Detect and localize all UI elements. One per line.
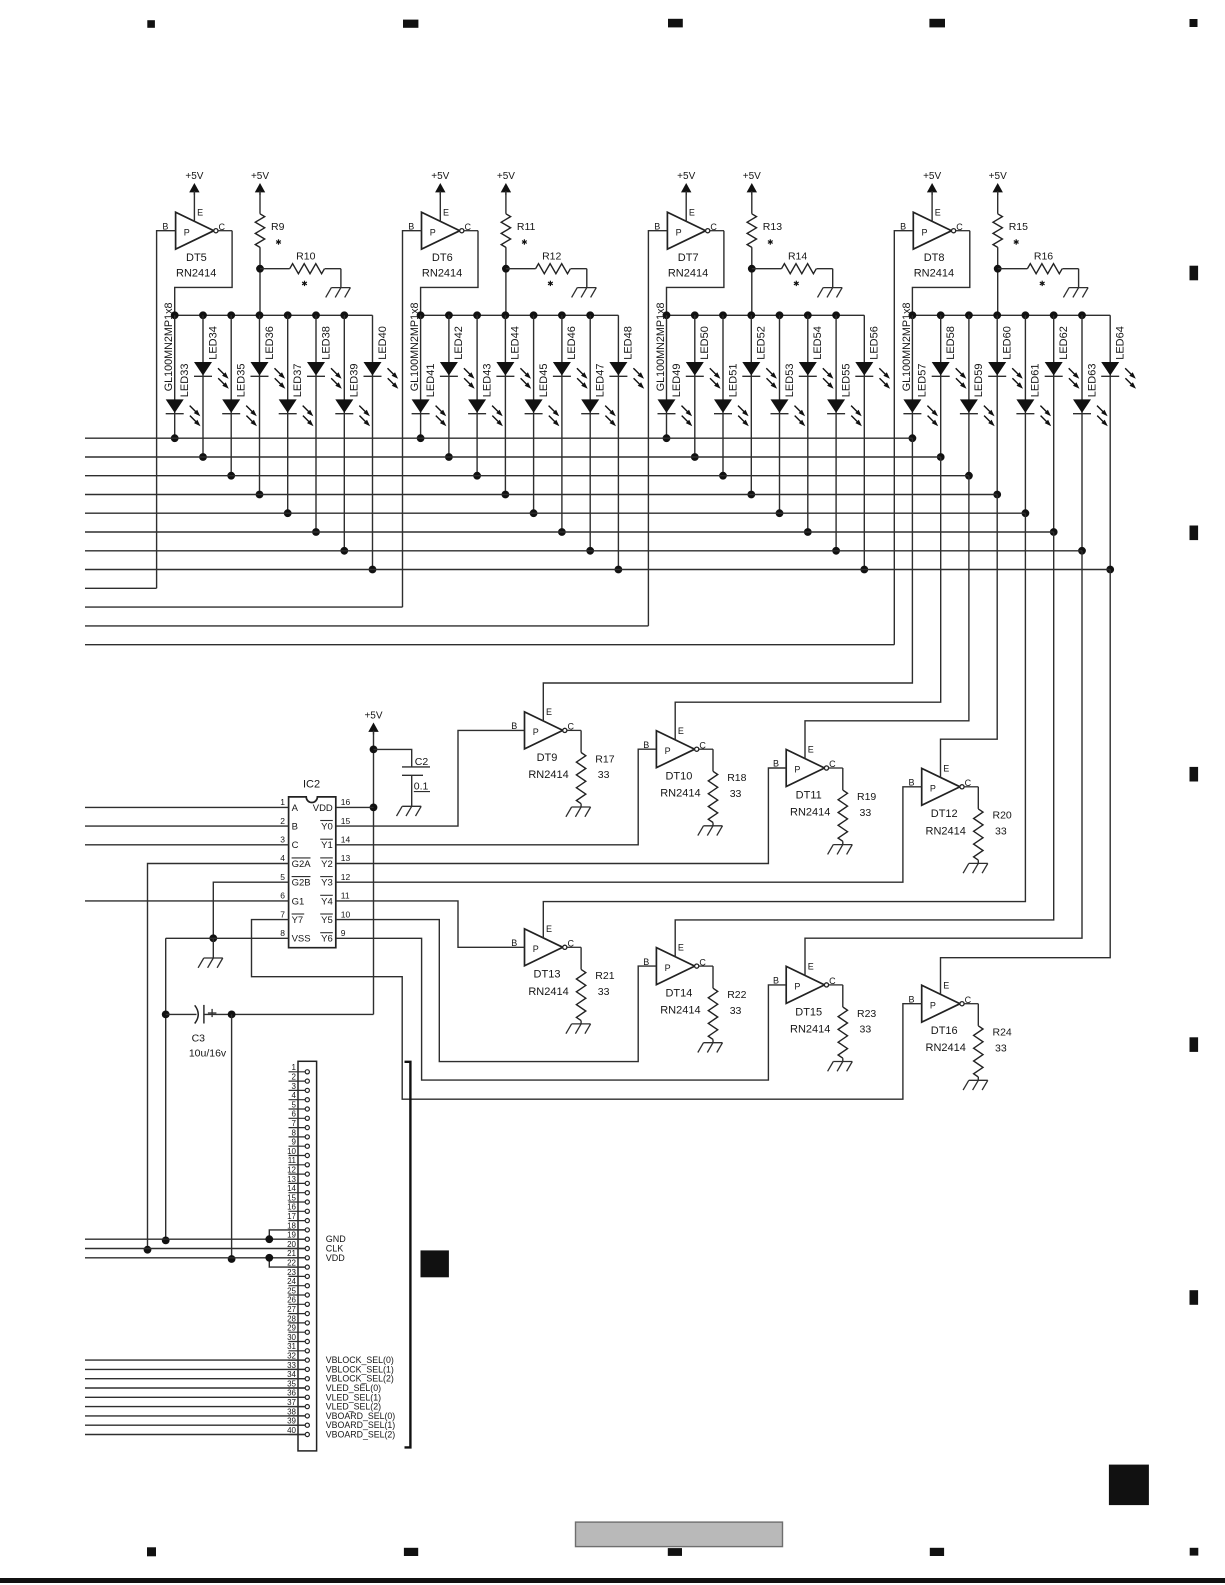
svg-text:LED39: LED39 xyxy=(349,364,361,398)
wire DT9 emitter from LED bus 1 xyxy=(543,438,912,721)
svg-text:LED54: LED54 xyxy=(812,326,824,360)
svg-text:39: 39 xyxy=(287,1417,296,1426)
+5V supply at DT7 emitter xyxy=(677,171,695,221)
wire DT6 base xyxy=(403,231,422,607)
wire LED row bus 4 xyxy=(85,494,997,496)
svg-text:DT15: DT15 xyxy=(795,1006,822,1018)
ground below R19 xyxy=(828,845,853,855)
svg-text:RN2414: RN2414 xyxy=(790,1023,830,1035)
svg-text:24: 24 xyxy=(287,1277,296,1286)
svg-text:GL100MN2MP1x8: GL100MN2MP1x8 xyxy=(409,302,421,391)
svg-text:RN2414: RN2414 xyxy=(914,268,954,280)
svg-text:DT7: DT7 xyxy=(678,252,699,264)
LED63 xyxy=(1073,364,1108,427)
LED33 xyxy=(166,364,201,427)
wire LED column 56 xyxy=(860,315,868,573)
wire LED row bus 8 xyxy=(85,569,1110,571)
svg-text:19: 19 xyxy=(287,1231,296,1240)
svg-text:LED56: LED56 xyxy=(869,326,881,360)
svg-text:26: 26 xyxy=(287,1296,296,1305)
capacitor C3 10u/16v xyxy=(166,1005,374,1059)
svg-text:VBOARD_SEL(2): VBOARD_SEL(2) xyxy=(326,1430,395,1440)
svg-text:VDD: VDD xyxy=(313,803,333,814)
svg-text:LED55: LED55 xyxy=(840,364,852,398)
wire DT15 emitter from LED bus 7 xyxy=(805,551,1082,976)
LED58 xyxy=(932,326,967,389)
svg-text:GL100MN2MP1x8: GL100MN2MP1x8 xyxy=(163,302,175,391)
ground at VSS xyxy=(198,938,223,968)
LED62 xyxy=(1045,326,1080,389)
svg-text:10: 10 xyxy=(341,909,351,919)
wire LED column 61 xyxy=(1022,315,1030,517)
wire VBLOCK_SEL(1) (pin 33) xyxy=(85,1368,305,1370)
wire LED column 53 xyxy=(776,315,784,517)
resistor R11 xyxy=(497,171,536,315)
transistor DT15 (RN2414) xyxy=(773,962,843,1036)
svg-text:32: 32 xyxy=(287,1352,296,1361)
svg-text:14: 14 xyxy=(287,1184,296,1193)
svg-text:LED64: LED64 xyxy=(1115,326,1127,360)
wire LED row bus 5 xyxy=(85,512,1025,514)
LED64 xyxy=(1101,326,1136,389)
svg-text:11: 11 xyxy=(341,891,350,901)
svg-text:18: 18 xyxy=(287,1221,296,1230)
wire G2B (pin 5) to VSS net xyxy=(209,882,288,942)
wire LED anode bus group 4 xyxy=(909,311,1111,319)
svg-text:G1: G1 xyxy=(292,896,305,907)
wire DT7 base xyxy=(648,231,667,626)
wire LED column 44 xyxy=(502,315,510,498)
LED39 xyxy=(335,364,370,427)
wire DT5 base xyxy=(157,231,176,589)
ground below C2 xyxy=(397,806,422,816)
LED51 xyxy=(714,364,749,427)
LED34 xyxy=(194,326,229,389)
wire Y3 to DT12 xyxy=(336,787,922,882)
svg-text:R14: R14 xyxy=(788,250,807,262)
svg-text:GL100MN2MP1x8: GL100MN2MP1x8 xyxy=(901,302,913,391)
svg-text:Y7: Y7 xyxy=(292,915,304,926)
LED40 xyxy=(364,326,399,389)
wire LED column 45 xyxy=(530,315,538,517)
svg-text:7: 7 xyxy=(280,909,285,919)
svg-text:17: 17 xyxy=(287,1212,296,1221)
svg-text:B: B xyxy=(292,822,298,833)
svg-text:0.1: 0.1 xyxy=(414,781,429,793)
LED44 xyxy=(496,326,531,389)
ground below R17 xyxy=(566,807,591,817)
transistor DT8 (RN2414) xyxy=(900,207,970,279)
wire LED row bus 1 xyxy=(85,437,912,439)
svg-text:R9: R9 xyxy=(271,221,285,233)
svg-text:33: 33 xyxy=(598,986,610,998)
wire DT16 emitter from LED bus 8 xyxy=(941,570,1111,995)
wire DT8 base feed xyxy=(85,644,894,646)
svg-text:2: 2 xyxy=(280,816,285,826)
wire LED row bus 6 xyxy=(85,531,1054,533)
svg-text:28: 28 xyxy=(287,1314,296,1323)
transistor DT10 (RN2414) xyxy=(643,726,713,800)
+5V supply at DT8 emitter xyxy=(923,171,941,221)
wire LED column 51 xyxy=(719,315,727,479)
svg-text:40: 40 xyxy=(287,1426,296,1435)
resistor R9 xyxy=(251,171,285,315)
svg-text:13: 13 xyxy=(287,1175,296,1184)
pcb mark square xyxy=(421,1250,449,1277)
wire Y0 to DT9 xyxy=(336,730,525,826)
wire DT8 base xyxy=(894,231,913,645)
resistor R15 xyxy=(989,171,1028,315)
svg-text:Y6: Y6 xyxy=(321,934,333,945)
wire LED row bus 7 xyxy=(85,550,1082,552)
wire DT5 base feed xyxy=(85,587,157,589)
LED54 xyxy=(799,326,834,389)
svg-text:33: 33 xyxy=(860,1024,872,1036)
svg-text:R19: R19 xyxy=(857,791,876,803)
transistor DT14 (RN2414) xyxy=(643,943,713,1017)
svg-text:RN2414: RN2414 xyxy=(660,1005,700,1017)
svg-text:R15: R15 xyxy=(1009,221,1028,233)
wire LED column 39 xyxy=(340,315,348,554)
resistor R20 33 xyxy=(974,787,1012,864)
wire LED column 48 xyxy=(615,315,623,573)
svg-text:12: 12 xyxy=(341,872,351,882)
svg-text:DT14: DT14 xyxy=(665,988,692,1000)
wire DT13 emitter from LED bus 5 xyxy=(543,513,1025,938)
LED55 xyxy=(827,364,862,427)
wire DT12 emitter from LED bus 4 xyxy=(941,495,998,778)
LED37 xyxy=(279,364,314,427)
svg-text:LED45: LED45 xyxy=(538,364,550,398)
svg-text:27: 27 xyxy=(287,1305,296,1314)
IC IC2 (3-to-8 decoder) xyxy=(280,779,350,948)
svg-text:LED46: LED46 xyxy=(566,326,578,360)
svg-text:16: 16 xyxy=(341,797,351,807)
svg-text:8: 8 xyxy=(292,1128,297,1137)
ground below R18 xyxy=(698,826,723,836)
svg-text:LED40: LED40 xyxy=(377,326,389,360)
wire LED anode bus group 2 xyxy=(417,311,619,319)
resistor R21 33 xyxy=(576,947,614,1024)
svg-text:33: 33 xyxy=(730,1005,742,1017)
ground below R21 xyxy=(566,1024,591,1034)
svg-text:RN2414: RN2414 xyxy=(926,825,966,837)
LED43 xyxy=(468,364,503,427)
LED56 xyxy=(855,326,890,389)
wire LED column 33 xyxy=(171,315,179,442)
svg-text:13: 13 xyxy=(341,853,351,863)
wire LED column 57 xyxy=(909,315,917,442)
wire VLED_SEL(1) (pin 36) xyxy=(85,1396,305,1398)
wire LED column 41 xyxy=(417,315,425,442)
LED42 xyxy=(440,326,475,389)
svg-text:33: 33 xyxy=(995,826,1007,838)
wire LED column 64 xyxy=(1106,315,1114,573)
transistor DT16 (RN2414) xyxy=(908,980,978,1054)
LED59 xyxy=(960,364,995,427)
LED47 xyxy=(581,364,616,427)
svg-text:LED60: LED60 xyxy=(1002,326,1014,360)
wire Y6 to DT15 xyxy=(336,938,786,1080)
svg-text:LED33: LED33 xyxy=(179,364,191,398)
LED53 xyxy=(771,364,806,427)
wire Y4 to DT13 xyxy=(336,901,525,947)
svg-text:DT16: DT16 xyxy=(931,1025,958,1037)
wire C3 to connector VDD xyxy=(228,1014,236,1263)
svg-text:DT10: DT10 xyxy=(665,771,692,783)
svg-text:22: 22 xyxy=(287,1259,296,1268)
+5V supply at DT6 emitter xyxy=(431,171,449,221)
svg-text:11: 11 xyxy=(288,1156,297,1165)
svg-text:6: 6 xyxy=(280,891,285,901)
wire LED row bus 2 xyxy=(85,456,941,458)
svg-text:6: 6 xyxy=(292,1110,297,1119)
svg-text:21: 21 xyxy=(287,1249,296,1258)
ground below R14 xyxy=(818,288,843,298)
wire LED column 52 xyxy=(747,315,755,498)
svg-text:10u/16v: 10u/16v xyxy=(189,1047,227,1059)
svg-text:R22: R22 xyxy=(727,989,746,1001)
LED61 xyxy=(1016,364,1051,427)
resistor R22 33 xyxy=(708,966,746,1043)
wire input C (pin 3) xyxy=(85,844,289,846)
wire DT7 collector to LED anode bus xyxy=(667,231,724,316)
svg-text:LED63: LED63 xyxy=(1086,364,1098,398)
wire LED column 38 xyxy=(312,315,320,536)
svg-text:3: 3 xyxy=(292,1082,297,1091)
wire DT8 collector to LED anode bus xyxy=(912,231,969,316)
ground below R10 xyxy=(326,288,351,298)
wire VBOARD_SEL(0) (pin 38) xyxy=(85,1415,305,1417)
wire LED column 40 xyxy=(369,315,377,573)
wire VDD pin 16 xyxy=(336,806,374,808)
svg-text:25: 25 xyxy=(287,1286,296,1295)
svg-text:RN2414: RN2414 xyxy=(790,807,830,819)
svg-text:R10: R10 xyxy=(296,250,315,262)
LED46 xyxy=(553,326,588,389)
svg-text:33: 33 xyxy=(730,788,742,800)
resistor R12 xyxy=(506,250,587,287)
svg-text:15: 15 xyxy=(341,816,351,826)
wire VDD (pins 21,22) xyxy=(85,1254,305,1267)
svg-text:LED47: LED47 xyxy=(595,364,607,398)
svg-text:3: 3 xyxy=(280,835,285,845)
LED50 xyxy=(686,326,721,389)
wire LED column 63 xyxy=(1078,315,1086,554)
svg-text:31: 31 xyxy=(287,1342,296,1351)
svg-text:5: 5 xyxy=(292,1100,297,1109)
resistor R13 xyxy=(743,171,782,315)
svg-text:Y3: Y3 xyxy=(321,878,333,889)
svg-text:16: 16 xyxy=(287,1203,296,1212)
svg-text:DT9: DT9 xyxy=(537,752,558,764)
svg-text:LED41: LED41 xyxy=(425,364,437,398)
svg-text:Y5: Y5 xyxy=(321,915,333,926)
resistor R17 33 xyxy=(576,730,614,807)
wire VSS (pin 8) xyxy=(162,938,289,1244)
svg-text:29: 29 xyxy=(287,1324,296,1333)
svg-text:VDD: VDD xyxy=(326,1253,346,1263)
svg-text:R16: R16 xyxy=(1034,250,1053,262)
wire DT11 emitter from LED bus 3 xyxy=(805,476,969,759)
LED49 xyxy=(658,364,693,427)
wire LED column 54 xyxy=(804,315,812,536)
wire LED column 42 xyxy=(445,315,453,461)
ground below R16 xyxy=(1063,288,1088,298)
svg-text:RN2414: RN2414 xyxy=(528,769,568,781)
svg-text:LED49: LED49 xyxy=(671,364,683,398)
svg-text:Y4: Y4 xyxy=(321,896,333,907)
connector group bracket xyxy=(405,1062,411,1448)
capacitor C2 0.1 xyxy=(374,749,431,806)
resistor R23 33 xyxy=(838,985,876,1062)
svg-text:10: 10 xyxy=(287,1147,296,1156)
wire VBOARD_SEL(2) (pin 40) xyxy=(85,1434,305,1436)
svg-text:LED52: LED52 xyxy=(756,326,768,360)
LED45 xyxy=(525,364,560,427)
svg-text:35: 35 xyxy=(287,1379,296,1388)
svg-text:33: 33 xyxy=(598,769,610,781)
resistor R18 33 xyxy=(708,749,746,826)
svg-text:38: 38 xyxy=(287,1407,296,1416)
wire DT7 base feed xyxy=(85,625,648,627)
svg-text:LED50: LED50 xyxy=(699,326,711,360)
wire CLK (pin 20) xyxy=(85,1248,305,1250)
svg-text:33: 33 xyxy=(995,1043,1007,1055)
svg-text:LED44: LED44 xyxy=(510,326,522,360)
svg-text:LED53: LED53 xyxy=(784,364,796,398)
svg-text:30: 30 xyxy=(287,1333,296,1342)
svg-text:R24: R24 xyxy=(993,1027,1012,1039)
svg-text:LED36: LED36 xyxy=(264,326,276,360)
svg-text:7: 7 xyxy=(292,1119,297,1128)
wire VBOARD_SEL(1) (pin 39) xyxy=(85,1424,305,1426)
LED41 xyxy=(412,364,447,427)
wire LED column 55 xyxy=(832,315,840,554)
ground below R24 xyxy=(963,1080,988,1090)
svg-text:DT11: DT11 xyxy=(796,789,822,801)
wire LED anode bus group 3 xyxy=(663,311,865,319)
ground below R23 xyxy=(828,1062,853,1072)
svg-text:4: 4 xyxy=(292,1091,297,1100)
svg-text:33: 33 xyxy=(287,1361,296,1370)
svg-text:DT6: DT6 xyxy=(432,252,453,264)
svg-text:9: 9 xyxy=(292,1138,297,1147)
wire input G1 (pin 6) xyxy=(85,900,289,902)
svg-text:IC2: IC2 xyxy=(303,779,320,791)
svg-text:RN2414: RN2414 xyxy=(660,788,700,800)
svg-text:GL100MN2MP1x8: GL100MN2MP1x8 xyxy=(655,302,667,391)
wire LED column 35 xyxy=(227,315,235,479)
svg-text:R23: R23 xyxy=(857,1008,876,1020)
svg-text:A: A xyxy=(292,803,299,814)
svg-text:34: 34 xyxy=(287,1370,296,1379)
svg-text:LED38: LED38 xyxy=(320,326,332,360)
LED36 xyxy=(251,326,286,389)
svg-text:37: 37 xyxy=(287,1398,296,1407)
svg-text:C2: C2 xyxy=(415,756,429,768)
svg-text:RN2414: RN2414 xyxy=(422,268,462,280)
svg-text:DT13: DT13 xyxy=(534,969,561,981)
svg-text:DT12: DT12 xyxy=(931,808,958,820)
svg-text:15: 15 xyxy=(287,1193,296,1202)
wire Y2 to DT11 xyxy=(336,768,786,864)
LED48 xyxy=(609,326,644,389)
wire VLED_SEL(2) (pin 37) xyxy=(85,1406,305,1408)
svg-text:R12: R12 xyxy=(542,250,561,262)
LED60 xyxy=(988,326,1023,389)
svg-text:LED48: LED48 xyxy=(623,326,635,360)
svg-text:C: C xyxy=(292,840,299,851)
wire LED column 43 xyxy=(473,315,481,479)
LED38 xyxy=(307,326,342,389)
wire VLED_SEL(0) (pin 35) xyxy=(85,1387,305,1389)
wire Y7 to DT16 xyxy=(252,920,922,1100)
wire Y1 to DT10 xyxy=(336,749,657,845)
wire DT6 collector to LED anode bus xyxy=(421,231,478,316)
LED57 xyxy=(903,364,938,427)
svg-text:9: 9 xyxy=(341,928,346,938)
svg-text:5: 5 xyxy=(280,872,285,882)
svg-text:LED57: LED57 xyxy=(917,364,929,398)
svg-text:R21: R21 xyxy=(595,970,614,982)
svg-text:LED42: LED42 xyxy=(453,326,465,360)
svg-text:LED61: LED61 xyxy=(1030,364,1042,398)
transistor DT12 (RN2414) xyxy=(908,763,978,837)
svg-text:LED51: LED51 xyxy=(727,364,739,398)
transistor DT6 (RN2414) xyxy=(408,207,478,279)
svg-text:14: 14 xyxy=(341,835,351,845)
wire LED row bus 3 xyxy=(85,475,969,477)
resistor R24 33 xyxy=(974,1004,1012,1081)
svg-text:RN2414: RN2414 xyxy=(528,986,568,998)
wire LED column 36 xyxy=(256,315,264,498)
svg-text:DT8: DT8 xyxy=(924,252,945,264)
+5V supply rail (IC2) xyxy=(364,711,382,1015)
svg-text:Y1: Y1 xyxy=(321,840,333,851)
svg-text:RN2414: RN2414 xyxy=(926,1042,966,1054)
LED52 xyxy=(742,326,777,389)
wire LED column 59 xyxy=(965,315,973,479)
svg-text:1: 1 xyxy=(280,797,285,807)
svg-text:R20: R20 xyxy=(993,810,1012,822)
svg-text:LED34: LED34 xyxy=(207,326,219,360)
transistor DT11 (RN2414) xyxy=(773,745,843,819)
resistor R16 xyxy=(998,250,1079,287)
wire LED column 34 xyxy=(199,315,207,461)
svg-text:LED35: LED35 xyxy=(236,364,248,398)
transistor DT7 (RN2414) xyxy=(654,207,724,279)
wire DT10 emitter from LED bus 2 xyxy=(675,457,941,740)
svg-text:LED59: LED59 xyxy=(973,364,985,398)
wire VBLOCK_SEL(2) (pin 34) xyxy=(85,1378,305,1380)
svg-text:C3: C3 xyxy=(192,1032,206,1044)
svg-text:Y0: Y0 xyxy=(321,822,333,833)
svg-text:LED37: LED37 xyxy=(292,364,304,398)
wire G2A (pin 4) to CLK xyxy=(144,864,289,1254)
svg-text:2: 2 xyxy=(292,1073,297,1082)
svg-text:36: 36 xyxy=(287,1389,296,1398)
svg-text:R13: R13 xyxy=(763,221,782,233)
wire LED column 46 xyxy=(558,315,566,536)
transistor DT13 (RN2414) xyxy=(511,924,581,998)
connector CN (40 pin) xyxy=(287,1061,317,1451)
wire input B (pin 2) xyxy=(85,825,289,827)
LED35 xyxy=(222,364,257,427)
svg-text:33: 33 xyxy=(860,807,872,819)
ground below R12 xyxy=(572,288,597,298)
transistor DT9 (RN2414) xyxy=(511,707,581,781)
